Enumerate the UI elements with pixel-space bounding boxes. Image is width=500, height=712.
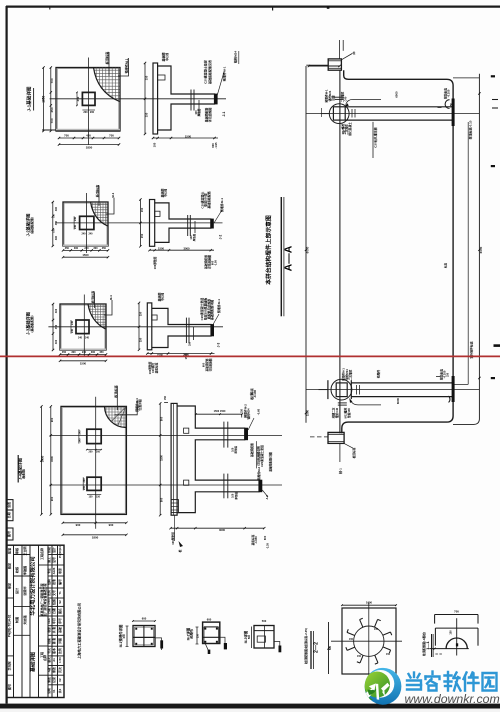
svg-text:T1: T1 <box>58 591 62 595</box>
svg-text:M-3详图: M-3详图 <box>243 630 248 643</box>
A-A lower anchor plate lines <box>338 402 347 404</box>
section J-1 wall plate <box>153 63 158 134</box>
svg-text:审定: 审定 <box>6 582 11 589</box>
svg-text:150: 150 <box>386 653 391 656</box>
svg-text:450: 450 <box>86 134 91 138</box>
svg-text:100厚垫层: 100厚垫层 <box>153 256 157 269</box>
svg-text:共 张: 共 张 <box>52 627 56 634</box>
detail 2-2 pile circle <box>354 626 384 656</box>
svg-text:3900: 3900 <box>40 455 44 462</box>
svg-text:年月: 年月 <box>52 618 56 624</box>
plan J-4 horizontal centerline 2 <box>50 484 282 486</box>
svg-text:P4(09)-T014-02: P4(09)-T014-02 <box>7 615 11 638</box>
plan J-1 leader to slab top level <box>108 52 110 76</box>
svg-text:文号: 文号 <box>52 590 56 597</box>
svg-text:240: 240 <box>82 351 87 354</box>
svg-text:柱脚: 柱脚 <box>331 95 335 101</box>
A-A lower beam end cap <box>452 376 455 402</box>
svg-text:厚垫层: 厚垫层 <box>233 446 237 454</box>
svg-text:-2.35: -2.35 <box>266 542 270 548</box>
detail M-2 left dimension <box>196 627 198 644</box>
detail M-2 square <box>203 622 220 643</box>
svg-text:详见结施图: 详见结施图 <box>209 358 213 371</box>
svg-text:梁顶标高-0.10: 梁顶标高-0.10 <box>468 120 473 140</box>
svg-text:M-1: M-1 <box>111 192 115 197</box>
A-A lower circle inner plate <box>336 383 347 397</box>
svg-text:900: 900 <box>50 417 54 422</box>
detail M-1 corner marks <box>135 628 137 630</box>
svg-text:150: 150 <box>140 233 144 238</box>
svg-text:华北电力设计院有限公司: 华北电力设计院有限公司 <box>28 556 36 615</box>
svg-text:垫板100: 垫板100 <box>347 408 351 418</box>
A-A top leader to column <box>341 54 352 60</box>
A-A right edge tick marks <box>491 75 495 77</box>
svg-text:桩顶配筋图(桩顶标高-2.35): 桩顶配筋图(桩顶标高-2.35) <box>303 628 308 665</box>
svg-text:板顶标高: 板顶标高 <box>95 185 100 197</box>
plan J-1 horizontal centerline <box>50 98 226 100</box>
svg-text:240: 240 <box>84 247 89 250</box>
svg-text:400: 400 <box>55 339 58 344</box>
plan J-3 leader up <box>93 292 95 308</box>
plan J-1 left inner dimension line <box>50 68 52 132</box>
svg-text:200: 200 <box>89 450 94 453</box>
plan J-4 horizontal centerline 1 <box>50 434 282 436</box>
svg-text:说明: 说明 <box>47 688 51 694</box>
section J-2 leader embed <box>214 210 222 223</box>
svg-text:700: 700 <box>50 118 54 123</box>
svg-text:校核: 校核 <box>14 566 19 574</box>
section J-1 rebar marks <box>190 90 192 111</box>
detail M-2 leader right <box>220 637 225 646</box>
svg-text:700: 700 <box>454 609 459 613</box>
plan J-3 bottom dimension line <box>60 354 106 356</box>
plan J-2 vertical centerline <box>86 193 88 253</box>
svg-text:编号: 编号 <box>58 579 62 585</box>
A-A lower stub leader <box>344 443 353 448</box>
svg-text:600: 600 <box>211 143 215 148</box>
plan J-1 bottom total dimension <box>59 144 119 146</box>
svg-text:1800: 1800 <box>92 535 99 539</box>
svg-text:预埋件: 预埋件 <box>377 370 381 379</box>
svg-text:审核: 审核 <box>14 547 19 554</box>
svg-text:C40: C40 <box>343 96 347 101</box>
plan J-4 outer footing outline <box>61 406 126 514</box>
svg-text:预埋件M-2: 预埋件M-2 <box>257 466 261 480</box>
label J-4 plan title <box>17 455 19 483</box>
svg-text:200: 200 <box>83 485 86 490</box>
svg-text:150: 150 <box>138 311 142 316</box>
svg-text:M-1: M-1 <box>109 295 113 300</box>
section J-1 footing block and slab profile <box>158 66 215 130</box>
A-A right extension line <box>467 122 469 384</box>
section J-3 wall plate <box>147 303 152 350</box>
A-A upper beam left stub <box>321 113 330 115</box>
A-A right dimension line <box>453 74 479 425</box>
svg-text:比例: 比例 <box>47 590 51 596</box>
section J-4 notch boxes <box>184 428 189 433</box>
svg-text:日期: 日期 <box>47 608 51 614</box>
svg-text:250: 250 <box>197 633 200 638</box>
svg-text:150: 150 <box>145 112 149 117</box>
detail 1-1 bottom dashes <box>435 653 442 655</box>
svg-text:6000: 6000 <box>396 397 400 404</box>
plan J-3 leader right <box>104 300 112 315</box>
svg-text:150: 150 <box>145 75 149 80</box>
svg-text:(板配筋): (板配筋) <box>22 469 26 479</box>
svg-text:01: 01 <box>52 689 56 693</box>
svg-text:700: 700 <box>50 78 54 83</box>
detail M-1 leader <box>155 638 162 650</box>
svg-text:400: 400 <box>55 206 58 211</box>
svg-text:1500: 1500 <box>160 455 164 461</box>
svg-text:-0.60: -0.60 <box>256 408 260 415</box>
svg-text:2—2: 2—2 <box>314 642 320 653</box>
top border tick marks <box>49 6 51 10</box>
svg-text:第 张: 第 张 <box>52 638 56 645</box>
svg-text:1500: 1500 <box>306 409 310 416</box>
svg-text:中心线: 中心线 <box>161 293 165 301</box>
detail 2-2 title <box>310 631 312 669</box>
section J-3 leader embed <box>211 314 219 328</box>
section J-4 bottom-left leader <box>174 515 176 541</box>
svg-text:300: 300 <box>91 351 96 354</box>
section J-2 left dimension <box>139 200 141 247</box>
sheet border top <box>6 5 500 7</box>
plan J-1 left outer dimension line <box>43 68 45 132</box>
A-A upper circle column section <box>329 104 349 124</box>
svg-text:900: 900 <box>160 416 164 421</box>
section J-4 left dimension <box>159 403 161 515</box>
svg-text:证号: 证号 <box>52 557 56 563</box>
logo icon white inner disc <box>367 670 395 698</box>
svg-text:240: 240 <box>71 328 74 333</box>
plan J-1 bottom edge band <box>56 129 120 131</box>
svg-text:张晓华: 张晓华 <box>22 585 27 595</box>
svg-text:100: 100 <box>189 341 192 346</box>
svg-text:基础梁: 基础梁 <box>161 51 166 62</box>
detail 1-1 vertical centerline <box>456 618 458 655</box>
A-A bracket outline <box>342 70 453 433</box>
plan J-3 column square <box>76 320 89 334</box>
svg-text:预埋件M-1: 预埋件M-1 <box>342 368 346 381</box>
svg-text:150: 150 <box>140 207 144 212</box>
svg-text:450: 450 <box>65 247 70 250</box>
plan J-3 vertical centerline <box>83 295 85 358</box>
svg-text:厚垫层: 厚垫层 <box>234 492 238 500</box>
svg-text:1850: 1850 <box>86 146 93 150</box>
svg-text:标高: 标高 <box>443 263 447 270</box>
svg-text:450: 450 <box>99 351 104 354</box>
A-A leader with pile note <box>372 122 374 158</box>
svg-text:卷册: 卷册 <box>58 568 62 575</box>
svg-text:核定: 核定 <box>6 562 11 569</box>
svg-text:200: 200 <box>90 111 95 114</box>
logo text downkr chinese vectorized <box>407 672 497 691</box>
svg-text:500: 500 <box>262 619 267 623</box>
svg-text:P4(09)14: P4(09)14 <box>58 546 62 558</box>
svg-text:预埋件M-1: 预埋件M-1 <box>124 58 129 73</box>
plan J-2 corner hatch grid <box>89 201 108 227</box>
detail 2-2 square outline <box>342 608 396 674</box>
plan J-3 hatch boundary curve <box>88 304 106 329</box>
plan J-1 hatch boundary curve <box>94 68 120 102</box>
svg-text:J-2: J-2 <box>218 234 222 239</box>
svg-text:A版: A版 <box>47 667 51 672</box>
A-A upper beam end hook <box>445 100 449 109</box>
detail 2-2 top dimension <box>342 604 396 606</box>
svg-text:华东院: 华东院 <box>6 661 11 670</box>
detail M-2 leader bottom <box>205 644 208 651</box>
svg-text:900: 900 <box>160 497 164 502</box>
plan J-1 column square <box>82 92 95 105</box>
svg-text:桩: 桩 <box>178 549 182 552</box>
plan J-3 outer footing outline <box>60 304 106 350</box>
svg-text:450: 450 <box>102 247 107 250</box>
svg-text:450: 450 <box>50 107 54 112</box>
svg-text:预埋件M-1: 预埋件M-1 <box>216 299 221 313</box>
plan J-1 dim extension at bottom left <box>42 129 56 131</box>
svg-text:09.6: 09.6 <box>47 618 51 624</box>
section J-2 slab end cap <box>211 219 214 229</box>
detail M-1 left dimension <box>126 626 128 647</box>
svg-text:基础底板配筋: 基础底板配筋 <box>206 191 211 209</box>
svg-text:柱: 柱 <box>353 50 356 55</box>
section J-4 rebar marks beam1 <box>223 422 225 448</box>
plan J-2 leader up <box>98 186 100 207</box>
detail 1-1 title <box>431 634 433 657</box>
svg-text:450: 450 <box>76 96 80 101</box>
svg-text:本拼台结构埋件上部示意图: 本拼台结构埋件上部示意图 <box>264 215 272 285</box>
svg-text:锚栓M24: 锚栓M24 <box>233 51 238 63</box>
svg-text:C20素砼: C20素砼 <box>151 363 155 374</box>
svg-text:详图: 详图 <box>58 638 62 644</box>
plan J-4 col1 dims <box>78 429 80 443</box>
section J-4 beam2 right cluster <box>262 490 268 497</box>
svg-text:www.downkr.com: www.downkr.com <box>405 692 500 706</box>
plan J-2 left dimension <box>52 202 54 246</box>
detail 1-1 open rectangle bracket <box>435 627 478 629</box>
plan J-2 bottom dimension line <box>63 249 108 251</box>
red revision line <box>0 355 500 357</box>
plan J-2 leader right <box>106 198 114 214</box>
A-A upper beam small rebar ticks <box>351 109 353 118</box>
svg-text:卷册: 卷册 <box>47 627 51 634</box>
svg-text:150: 150 <box>450 103 453 108</box>
svg-text:-1.95: -1.95 <box>214 142 218 149</box>
svg-text:300: 300 <box>93 247 98 250</box>
sheet border left <box>5 6 7 704</box>
A-A right edge marks <box>494 344 500 347</box>
svg-text:-0.100: -0.100 <box>253 390 257 399</box>
section J-4 rebar marks beam2 <box>223 474 225 499</box>
logo icon dark leaf shadow <box>368 689 378 696</box>
section J-1 notch box <box>158 75 165 80</box>
detail M-3 left dimension <box>251 627 253 649</box>
svg-text:6000: 6000 <box>394 91 398 98</box>
svg-text:中心线: 中心线 <box>165 53 169 61</box>
svg-text:200: 200 <box>83 111 88 114</box>
svg-text:中心线: 中心线 <box>164 189 168 197</box>
A-A main column line <box>339 70 341 433</box>
svg-text:300: 300 <box>71 351 76 354</box>
svg-text:详见结施图: 详见结施图 <box>207 108 212 123</box>
section J-2 notch box <box>155 211 160 216</box>
svg-text:240: 240 <box>82 232 87 235</box>
plan J-3 left dimension <box>52 304 54 350</box>
svg-text:240: 240 <box>71 320 74 325</box>
plan J-3 horizontal centerline <box>48 326 223 328</box>
section J-4 beam1 top dimension line <box>196 413 242 415</box>
plan J-3 corner hatch grid <box>86 303 106 330</box>
section J-4 ladder box at wall bottom <box>171 500 178 513</box>
svg-text:阶段: 阶段 <box>47 547 51 553</box>
svg-text:900: 900 <box>109 523 114 527</box>
detail M-2 corner marks <box>204 628 206 630</box>
svg-text:工程名称: 工程名称 <box>39 548 44 560</box>
plan J-4 bottom total dimension <box>63 534 127 536</box>
section J-2 footing block and slab profile <box>155 203 211 243</box>
section J-3 rebar marks <box>185 318 187 343</box>
A-A lower beam end hook <box>449 396 450 402</box>
svg-text:(预埋件): (预埋件) <box>190 629 194 639</box>
plan J-1 column dim left <box>76 92 78 105</box>
A-A top arm extension line <box>453 77 479 79</box>
plan J-4 column square 1 <box>87 429 101 443</box>
svg-text:400: 400 <box>55 308 58 313</box>
svg-text:J-4: J-4 <box>265 495 269 500</box>
svg-text:板顶标高: 板顶标高 <box>90 291 95 303</box>
title block horizontal lines right columns <box>48 554 64 556</box>
svg-text:设计: 设计 <box>52 547 56 553</box>
title block outer frame <box>7 545 64 697</box>
svg-text:柱脚二次: 柱脚二次 <box>332 407 336 418</box>
svg-text:会签: 会签 <box>6 501 11 508</box>
section J-4 beam1 end cap <box>244 428 248 441</box>
plan J-3 column dims <box>70 320 72 334</box>
svg-text:500: 500 <box>329 645 332 650</box>
plan J-2 bottom edge band <box>63 245 108 247</box>
A-A upper beam edges <box>345 106 452 108</box>
plan J-1 column dim below <box>82 109 95 111</box>
svg-text:400: 400 <box>55 235 58 240</box>
svg-text:修改: 修改 <box>47 677 51 684</box>
A-A grout leader arrow <box>346 99 381 104</box>
svg-text:J-1: J-1 <box>222 111 226 116</box>
title block vertical lines <box>13 545 15 697</box>
plan J-2 horizontal centerline <box>56 222 223 224</box>
logo icon green leaf tail <box>364 689 373 701</box>
section J-3 slab end cap <box>211 324 214 336</box>
A-A upper horizontal centerline <box>306 113 479 115</box>
svg-text:设计: 设计 <box>14 587 19 594</box>
svg-text:M12螺栓: M12螺栓 <box>344 407 348 418</box>
plan J-1 vertical centerline <box>88 58 90 146</box>
plan J-1 outer footing outline <box>56 68 120 132</box>
svg-text:基础: 基础 <box>58 627 62 634</box>
svg-text:150: 150 <box>164 395 167 400</box>
svg-text:检索: 检索 <box>47 638 51 645</box>
detail 2-2 horizontal centerline <box>331 640 402 642</box>
svg-text:1:50: 1:50 <box>58 657 62 663</box>
detail 1-1 half circle <box>446 638 467 649</box>
svg-text:1500 1500: 1500 1500 <box>214 410 226 413</box>
svg-text:基础梁配筋: 基础梁配筋 <box>205 358 209 372</box>
svg-text:制图: 制图 <box>14 617 19 623</box>
section J-4 wall plate <box>171 403 177 515</box>
svg-text:C20素混凝土垫层: C20素混凝土垫层 <box>260 445 264 467</box>
plan J-4 col2 dims <box>82 477 84 490</box>
svg-text:锚栓M24: 锚栓M24 <box>247 408 251 419</box>
svg-text:预埋件M-1: 预埋件M-1 <box>222 66 227 81</box>
svg-text:1:50: 1:50 <box>47 599 51 605</box>
svg-text:150: 150 <box>357 655 362 658</box>
svg-text:桩顶标高: 桩顶标高 <box>352 447 356 459</box>
svg-text:6000: 6000 <box>306 246 310 253</box>
svg-text:600: 600 <box>207 618 212 622</box>
svg-text:600: 600 <box>122 633 126 638</box>
svg-text:150: 150 <box>89 495 94 498</box>
svg-text:150: 150 <box>374 628 379 631</box>
svg-text:600: 600 <box>202 362 206 367</box>
svg-text:450: 450 <box>55 324 58 329</box>
svg-text:240: 240 <box>74 216 77 221</box>
svg-text:600: 600 <box>142 616 147 620</box>
svg-text:240: 240 <box>74 224 77 229</box>
svg-text:200: 200 <box>96 450 101 453</box>
svg-text:300: 300 <box>74 247 79 250</box>
svg-text:150: 150 <box>447 372 450 377</box>
svg-text:S2: S2 <box>58 600 62 604</box>
detail 2-2 left extension line <box>328 622 330 674</box>
plan J-4 bottom dimension <box>63 522 127 524</box>
svg-text:基础梁配筋: 基础梁配筋 <box>250 443 254 458</box>
section J-4 block with two beams profile <box>177 406 259 513</box>
svg-text:150: 150 <box>96 495 101 498</box>
A-A lower beam left stub <box>319 389 328 391</box>
detail M-1 square <box>133 626 155 647</box>
detail M-1 top dimension <box>133 620 155 622</box>
svg-text:页次: 页次 <box>58 667 62 674</box>
section J-1 slab end cap <box>214 94 217 105</box>
section J-2 wall plate <box>150 200 155 247</box>
plan J-3 bottom edge band <box>60 349 106 351</box>
svg-text:1500: 1500 <box>158 246 164 250</box>
detail 2-2 vertical centerline <box>368 602 370 680</box>
A-A lower end plates <box>327 380 329 399</box>
svg-text:图号: 图号 <box>6 531 11 537</box>
plan J-4 vertical centerline <box>95 397 97 529</box>
plan J-4 fan leader up <box>116 386 118 410</box>
svg-text:100: 100 <box>344 130 347 135</box>
A-A lower horizontal centerline <box>306 389 479 391</box>
svg-text:王立明: 王立明 <box>22 546 27 555</box>
section J-3 left dimension <box>138 303 140 350</box>
svg-text:700: 700 <box>64 134 69 138</box>
section J-4 bottom dimension <box>171 527 265 529</box>
svg-text:李建国: 李建国 <box>22 566 27 576</box>
svg-text:240: 240 <box>79 430 82 435</box>
svg-text:240: 240 <box>85 337 90 340</box>
logo icon white K glyph <box>369 683 376 690</box>
svg-text:(基础板配筋): (基础板配筋) <box>29 217 34 234</box>
svg-text:A1: A1 <box>52 658 56 662</box>
svg-text:基础详图: 基础详图 <box>29 652 36 673</box>
svg-text:1500: 1500 <box>50 456 54 462</box>
svg-text:3000: 3000 <box>184 246 190 250</box>
detail 1-1 base line <box>429 648 469 650</box>
section J-3 notch box <box>152 315 157 320</box>
A-A section title double line <box>280 197 282 316</box>
